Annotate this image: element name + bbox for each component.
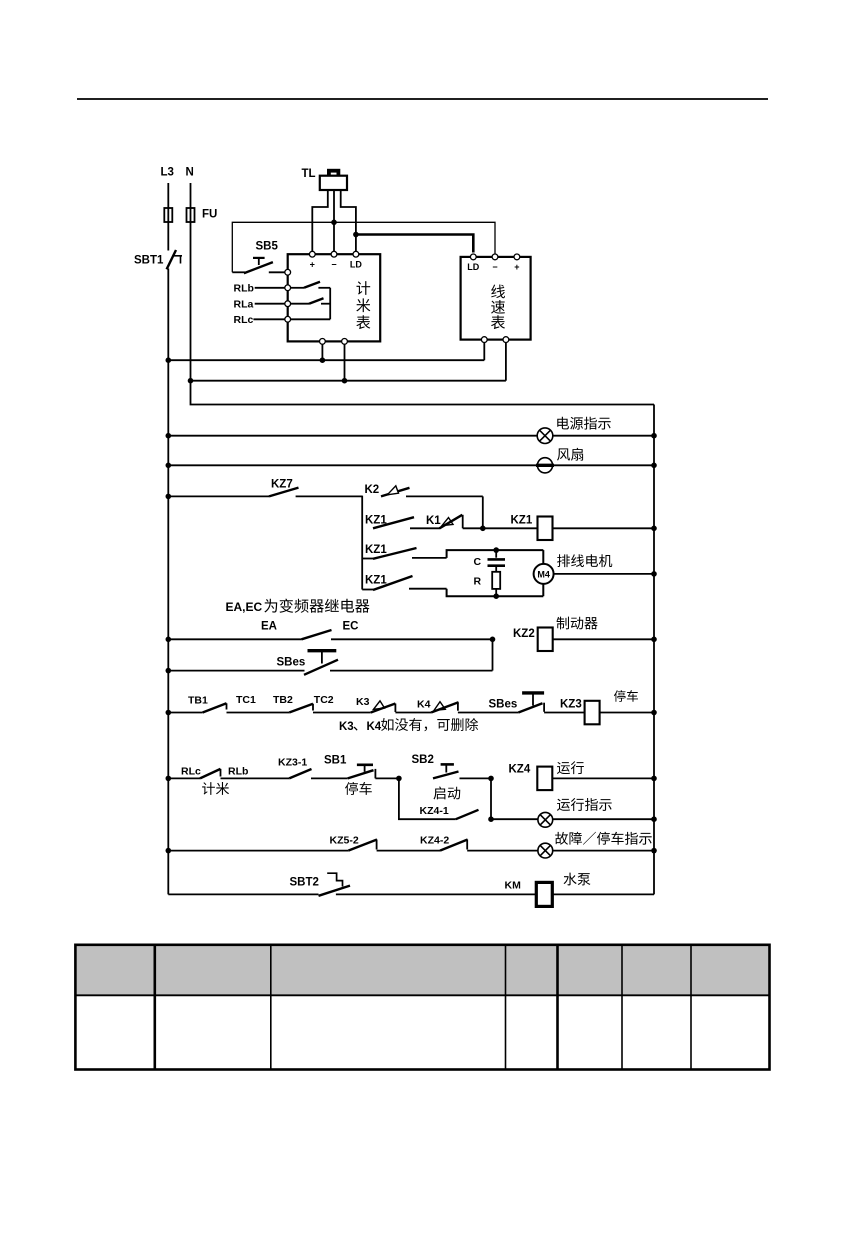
terminal speedmeter bottom left	[481, 337, 487, 343]
wire minus-bus	[232, 222, 495, 272]
svg-text:C: C	[474, 556, 482, 568]
svg-text:KZ5-2: KZ5-2	[330, 835, 359, 847]
fuse FU (N)	[187, 208, 195, 222]
svg-text:KZ4-2: KZ4-2	[420, 835, 449, 847]
svg-text:TB2: TB2	[273, 694, 293, 706]
svg-text:K3: K3	[356, 696, 370, 708]
svg-text:SBT1: SBT1	[134, 255, 164, 267]
wire RLc	[253, 318, 284, 320]
svg-text:N: N	[186, 167, 194, 179]
pushbutton SBes (parallel)	[168, 670, 304, 672]
wire snubber frame	[447, 550, 544, 558]
svg-text:EC: EC	[343, 621, 359, 633]
contact EA-EC	[168, 638, 301, 640]
svg-text:SB5: SB5	[256, 241, 279, 253]
terminal RLa	[285, 301, 291, 307]
svg-text:K4: K4	[417, 699, 431, 711]
svg-text:SBT2: SBT2	[290, 877, 319, 889]
svg-text:K3: K3	[339, 721, 354, 733]
terminal meter bottom right	[342, 339, 348, 345]
wire N rail	[190, 183, 192, 381]
svg-text:KZ1: KZ1	[365, 544, 387, 556]
wire RLb	[255, 287, 285, 289]
wire return line 1	[168, 359, 484, 361]
junction SB2/KZ4	[488, 776, 494, 782]
wire latch right	[490, 778, 492, 819]
svg-text:KZ1: KZ1	[511, 515, 533, 527]
svg-text:SBes: SBes	[277, 657, 306, 669]
horizontal rule	[77, 98, 768, 100]
svg-text:K4: K4	[367, 721, 382, 733]
wire return line 2	[191, 380, 506, 382]
junction K2/K1	[480, 526, 486, 532]
wire speedmeter bottom left down	[483, 343, 485, 361]
lamp power-indicator rung	[168, 435, 537, 437]
wire meter bottom right down	[344, 344, 346, 380]
junction SB1/KZ4-1	[396, 776, 402, 782]
svg-text:FU: FU	[202, 209, 217, 221]
svg-text:KZ4-1: KZ4-1	[420, 805, 449, 817]
terminal meter bottom left	[320, 339, 326, 345]
switch SBT2	[168, 893, 318, 895]
svg-text:EA: EA	[261, 621, 277, 633]
junction meter/line2	[342, 378, 348, 384]
terminal LD	[353, 251, 359, 257]
wire speedmeter bottom right down	[505, 343, 507, 381]
svg-text:KZ4: KZ4	[509, 764, 531, 776]
terminal LD2	[470, 254, 476, 260]
contact RLb internal	[291, 287, 304, 289]
wire motor to rail	[554, 573, 654, 575]
junction minus-bus / TL mid	[331, 220, 337, 226]
svg-text:R: R	[474, 576, 482, 588]
svg-text:RLc: RLc	[181, 766, 201, 778]
svg-text:M4: M4	[537, 569, 550, 579]
contact KZ4-1	[399, 778, 456, 819]
svg-text:RLa: RLa	[234, 298, 254, 310]
svg-text:−: −	[331, 260, 336, 270]
terminal SB5 input	[285, 269, 291, 275]
svg-text:RLb: RLb	[234, 283, 254, 295]
svg-text:−: −	[492, 262, 497, 272]
terminal minus2	[492, 254, 498, 260]
meter U1 ji-mi-biao box	[288, 254, 381, 341]
svg-text:KM: KM	[505, 880, 522, 892]
svg-text:KZ7: KZ7	[271, 479, 293, 491]
terminal speedmeter bottom right	[503, 337, 509, 343]
contact KZ5-2	[168, 850, 348, 852]
terminal -	[331, 251, 337, 257]
wire TL mid to - terminal	[333, 190, 335, 252]
junction N/line2	[188, 378, 194, 384]
svg-text:KZ3: KZ3	[560, 699, 582, 711]
svg-text:TC2: TC2	[314, 694, 334, 706]
wire contact bus	[361, 496, 363, 590]
wire RLa	[255, 303, 285, 305]
svg-text:TL: TL	[302, 168, 316, 180]
junction L3/line1	[166, 357, 172, 363]
motor M4	[542, 550, 544, 564]
svg-text:KZ1: KZ1	[365, 575, 387, 587]
wire SBes up	[492, 639, 494, 670]
terminal RLc	[285, 316, 291, 322]
wire ladder top	[191, 381, 655, 405]
svg-text:+: +	[310, 260, 315, 270]
wire SB5 to meter terminal	[269, 271, 285, 273]
svg-text:L3: L3	[161, 167, 174, 179]
wire L3 rail upper	[167, 183, 169, 251]
contact TB1-TC1	[168, 712, 202, 714]
terminal plus2	[514, 254, 520, 260]
contact RLa internal	[291, 303, 309, 305]
wire L3 rail lower	[167, 269, 169, 895]
wire K2 drop	[482, 496, 484, 528]
terminal +	[309, 251, 315, 257]
junction C top	[493, 547, 499, 553]
meter U2 xian-su-biao box	[461, 257, 531, 340]
svg-text:K1: K1	[426, 515, 441, 527]
svg-text:+: +	[514, 262, 519, 272]
wire right rail	[653, 405, 655, 895]
svg-text:EA,EC: EA,EC	[226, 600, 263, 614]
svg-text:TB1: TB1	[188, 695, 208, 707]
svg-text:RLb: RLb	[228, 766, 248, 778]
table	[75, 945, 769, 996]
svg-text:KZ2: KZ2	[513, 628, 535, 640]
svg-text:TC1: TC1	[236, 694, 256, 706]
svg-text:LD: LD	[467, 262, 479, 272]
lamp run-indicator	[491, 818, 538, 820]
terminal RLb	[285, 285, 291, 291]
lamp fault-indicator	[538, 843, 553, 858]
junction meter/line1	[320, 357, 326, 363]
svg-text:K2: K2	[365, 484, 380, 496]
fan rung	[168, 464, 537, 466]
fuse FU (L3)	[164, 208, 172, 222]
junction C bottom	[493, 593, 499, 599]
wire internal bus	[329, 288, 331, 320]
svg-text:SB1: SB1	[324, 755, 347, 767]
svg-text:KZ3-1: KZ3-1	[278, 757, 307, 769]
svg-text:LD: LD	[350, 260, 362, 270]
contact RLc-RLb	[168, 777, 200, 779]
wire TL right to LD terminal	[341, 190, 356, 252]
wire meter bottom left down	[321, 344, 323, 360]
svg-text:SB2: SB2	[412, 754, 434, 766]
svg-text:SBes: SBes	[489, 699, 518, 711]
svg-text:RLc: RLc	[234, 314, 254, 326]
wire LD to LD	[356, 235, 473, 253]
wire TL left to + terminal	[312, 190, 328, 252]
junction SBes/KZ2	[490, 637, 496, 643]
junction LD wire	[353, 232, 359, 238]
